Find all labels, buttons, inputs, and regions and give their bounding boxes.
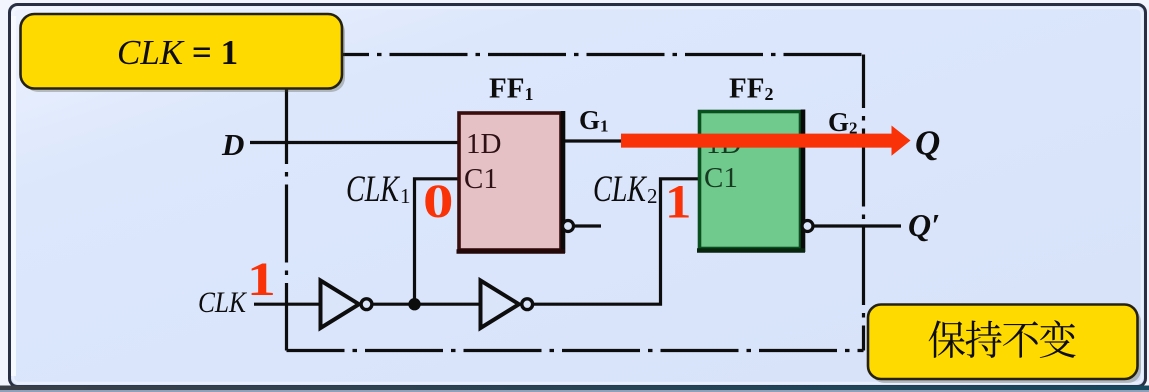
- wire dash-dot highlight loop: bottom segment: [287, 349, 864, 352]
- svg-text:1: 1: [247, 253, 276, 306]
- wire CLK2 from inverter2 to FF2 C1 pin: [534, 179, 700, 304]
- flip-flop FF1 box: [457, 111, 566, 253]
- wire D input: [250, 141, 458, 144]
- junction node on CLK1 net: [408, 298, 420, 310]
- FF1 inverted output bubble: [563, 221, 574, 232]
- svg-text:CLK: CLK: [593, 169, 648, 210]
- callout box 保持不变: [868, 305, 1141, 384]
- wire dash-dot highlight loop: left vertical from CLK=1 box: [285, 86, 288, 351]
- svg-text:1D: 1D: [466, 128, 501, 160]
- red signal propagation arrow G1 to Q: [621, 126, 911, 156]
- svg-text:CLK: CLK: [346, 169, 401, 210]
- FF2 inverted output bubble: [802, 221, 813, 232]
- svg-text:0: 0: [423, 174, 453, 227]
- svg-text:D: D: [221, 127, 244, 162]
- wire inverter1 output to inverter2: [373, 303, 482, 306]
- svg-text:2: 2: [647, 184, 658, 208]
- svg-text:Q′: Q′: [908, 207, 940, 243]
- svg-text:C1: C1: [704, 162, 738, 194]
- wire CLK input: [254, 303, 321, 306]
- svg-text:C1: C1: [464, 163, 498, 195]
- svg-text:1: 1: [665, 175, 691, 228]
- svg-text:CLK: CLK: [198, 286, 248, 319]
- svg-text:1: 1: [400, 184, 411, 208]
- wire FF2 inverted output to Q': [813, 224, 901, 227]
- bottom edge strip: [0, 386, 1149, 391]
- inverter gate 1: [321, 281, 372, 329]
- text 保持不变 (hold unchanged): [929, 320, 1076, 358]
- svg-text:CLK = 1: CLK = 1: [117, 33, 238, 72]
- inverter gate 2: [481, 281, 533, 329]
- wire dash-dot highlight loop: top segment: [343, 53, 864, 56]
- wire FF1 inverted output stub: [574, 224, 601, 227]
- callout box CLK = 1: [21, 14, 346, 92]
- flip-flop FF2 box: [697, 110, 805, 253]
- wire G1 FF1 output: [561, 139, 630, 142]
- wire CLK1 from junction to FF1 C1 pin: [415, 179, 459, 304]
- svg-text:Q: Q: [915, 124, 940, 163]
- wire dash-dot highlight loop: right vertical: [862, 55, 865, 351]
